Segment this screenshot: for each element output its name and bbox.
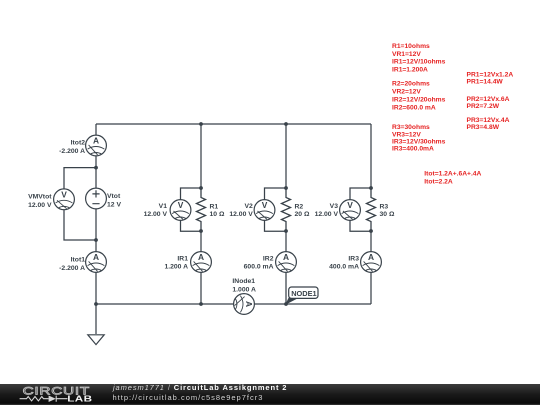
ammeter IR2	[276, 252, 297, 273]
svg-text:1.200 A: 1.200 A	[164, 263, 188, 270]
svg-text:Itot1: Itot1	[71, 256, 86, 263]
wire branch1 mid	[200, 231, 202, 252]
junction branch2 top	[284, 186, 288, 190]
wire branch2 mid	[285, 231, 287, 252]
wire V3 parallel loop	[350, 188, 371, 231]
junction branch1 bottom	[199, 229, 203, 233]
svg-text:PR1=14.4W: PR1=14.4W	[467, 78, 504, 85]
wire bottom rail right	[254, 303, 371, 305]
junction at Vtot bottom/VMVtot tap	[94, 238, 98, 242]
svg-text:IR2: IR2	[263, 255, 274, 262]
svg-text:12.00 V: 12.00 V	[229, 211, 253, 218]
wire branch1 bottom	[200, 272, 202, 304]
wire branch3 bottom	[370, 272, 372, 304]
ammeter IR1	[191, 252, 212, 273]
node flag NODE1	[286, 287, 318, 304]
svg-text:10 Ω: 10 Ω	[210, 211, 225, 218]
voltmeter V1	[170, 200, 191, 221]
svg-text:Vtot: Vtot	[107, 193, 121, 200]
svg-text:400.0 mA: 400.0 mA	[329, 263, 359, 270]
wire bottom rail left	[96, 303, 234, 305]
junction top rail branch1	[199, 122, 203, 126]
wire branch3 mid	[370, 231, 372, 252]
svg-text:R3=30ohms: R3=30ohms	[392, 124, 430, 131]
annotation red block PR1	[467, 71, 514, 85]
svg-text:12.00 V: 12.00 V	[28, 202, 52, 209]
resistor R2	[282, 188, 291, 231]
svg-text:IR1: IR1	[177, 255, 188, 262]
svg-text:Itot=1.2A+.6A+.4A: Itot=1.2A+.6A+.4A	[424, 171, 481, 178]
junction bottom rail branch2 / NODE1	[284, 302, 288, 306]
ground	[88, 335, 104, 345]
svg-text:20 Ω: 20 Ω	[295, 211, 310, 218]
junction at Itot2/VMVtot tap	[94, 166, 98, 170]
logo squiggle resistor+diode	[20, 396, 68, 402]
svg-text:IR2=600.0 mA: IR2=600.0 mA	[392, 104, 436, 111]
svg-text:IR3=12V/30ohms: IR3=12V/30ohms	[392, 139, 446, 146]
wire left rail to Itot2	[95, 124, 97, 135]
svg-text:PR2=7.2W: PR2=7.2W	[467, 103, 500, 110]
logo LAB	[67, 395, 92, 404]
wire top rail	[96, 123, 371, 125]
junction branch3 bottom	[369, 229, 373, 233]
svg-text:R2: R2	[295, 203, 304, 210]
wire V1 parallel loop	[181, 188, 202, 231]
wire branch2 bottom	[285, 272, 287, 304]
svg-text:12 V: 12 V	[107, 202, 121, 209]
svg-text:IR3: IR3	[348, 255, 359, 262]
annotation red block PR3	[467, 117, 510, 131]
ammeter INode1 (rotated inline)	[234, 294, 255, 315]
annotation red block Itot	[424, 171, 481, 186]
voltmeter V2	[254, 200, 275, 221]
svg-text:-2.200 A: -2.200 A	[59, 265, 85, 272]
svg-text:VMVtot: VMVtot	[28, 193, 52, 200]
svg-text:30 Ω: 30 Ω	[380, 211, 395, 218]
logo CIRCUIT	[23, 384, 90, 396]
voltage source Vtot	[86, 188, 107, 209]
junction at ground rail	[94, 302, 98, 306]
wire ground stem	[95, 304, 97, 334]
svg-text:jamesm1771 / CircuitLab Assikg: jamesm1771 / CircuitLab Assikgnment 2	[112, 383, 287, 392]
svg-text:Itot2: Itot2	[71, 140, 86, 147]
junction top rail branch2	[284, 122, 288, 126]
svg-text:PR1=12Vx1.2A: PR1=12Vx1.2A	[467, 71, 514, 78]
svg-text:R2=20ohms: R2=20ohms	[392, 81, 430, 88]
wire V2 parallel loop	[265, 188, 287, 231]
svg-text:12.00 V: 12.00 V	[144, 211, 168, 218]
svg-text:VR3=12V: VR3=12V	[392, 131, 421, 138]
svg-text:V3: V3	[330, 203, 339, 210]
voltmeter V3	[340, 200, 361, 221]
annotation red block R1	[392, 43, 446, 73]
annotation red block R3	[392, 124, 446, 152]
svg-text:NODE1: NODE1	[291, 289, 316, 298]
junction branch3 top	[369, 186, 373, 190]
logo diode triangle	[49, 396, 56, 403]
svg-text:R1=10ohms: R1=10ohms	[392, 43, 430, 50]
junction branch2 bottom	[284, 229, 288, 233]
svg-text:V1: V1	[159, 203, 168, 210]
wire branch1 drop	[200, 124, 202, 188]
footer bar	[0, 384, 540, 405]
svg-text:VR2=12V: VR2=12V	[392, 88, 421, 95]
wire VMVtot bottom loop	[64, 210, 96, 240]
annotation red block R2	[392, 81, 446, 112]
ammeter IR3	[361, 252, 382, 273]
annotation red block PR2	[467, 96, 510, 110]
voltmeter VMVtot	[54, 189, 75, 210]
svg-text:600.0 mA: 600.0 mA	[244, 263, 274, 270]
svg-text:PR3=12Vx.4A: PR3=12Vx.4A	[467, 117, 510, 124]
resistor R3	[367, 188, 376, 231]
ammeter Itot1	[86, 252, 107, 273]
wire Itot1 to bottom rail	[95, 272, 97, 304]
svg-text:Itot=2.2A: Itot=2.2A	[424, 178, 453, 185]
ammeter Itot2	[86, 135, 107, 156]
wire Itot2 to Vtot	[95, 156, 97, 188]
svg-text:IR1=1.200A: IR1=1.200A	[392, 66, 428, 73]
wire branch3 drop	[370, 124, 372, 188]
wire Vtot to Itot1	[95, 209, 97, 252]
junction branch1 top	[199, 186, 203, 190]
wire branch2 drop	[285, 124, 287, 188]
junction bottom rail branch1	[199, 302, 203, 306]
svg-text:PR3=4.8W: PR3=4.8W	[467, 124, 500, 131]
svg-text:INode1: INode1	[232, 278, 255, 285]
svg-text:IR3=400.0mA: IR3=400.0mA	[392, 146, 434, 153]
svg-text:VR1=12V: VR1=12V	[392, 51, 421, 58]
svg-text:IR2=12V/20ohms: IR2=12V/20ohms	[392, 96, 446, 103]
svg-text:IR1=12V/10ohms: IR1=12V/10ohms	[392, 59, 446, 66]
svg-text:V2: V2	[244, 203, 253, 210]
svg-text:http://circuitlab.com/c5s8e9ep: http://circuitlab.com/c5s8e9ep7fcr3	[113, 393, 264, 402]
svg-text:R1: R1	[210, 203, 219, 210]
resistor R1	[197, 188, 206, 231]
svg-text:R3: R3	[380, 203, 389, 210]
wire VMVtot top loop	[64, 168, 96, 189]
svg-text:1.000 A: 1.000 A	[232, 286, 256, 293]
svg-text:LAB: LAB	[67, 395, 92, 404]
svg-text:12.00 V: 12.00 V	[315, 211, 339, 218]
svg-text:-2.200 A: -2.200 A	[59, 148, 85, 155]
